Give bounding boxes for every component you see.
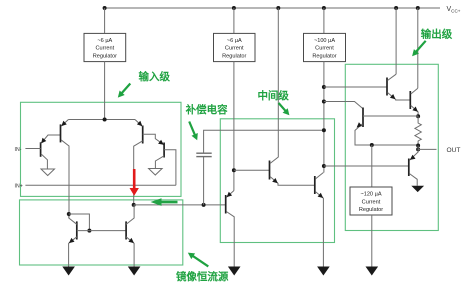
annotation input stage arrow xyxy=(118,84,131,98)
transistor Q7 emitter arrow (NPN) xyxy=(69,238,75,243)
annotation output stage text xyxy=(421,28,453,41)
transistor Q8 base bar xyxy=(125,221,127,239)
wire node A to middle stage xyxy=(134,204,226,206)
label OUT xyxy=(447,147,461,154)
current regulator 2 (~6 uA) xyxy=(214,33,256,61)
transistor Q5 emitter arrow (PNP) xyxy=(227,192,233,197)
transistor Q9 emitter arrow (NPN) xyxy=(272,178,278,183)
resistor Rsc xyxy=(415,116,421,145)
node mirror input A xyxy=(132,203,136,207)
node rail-4 xyxy=(322,6,326,10)
annotation mirror source text xyxy=(176,270,229,283)
svg-text:~6 µA: ~6 µA xyxy=(97,38,112,44)
transistor Q3 emitter diag xyxy=(135,120,142,127)
ground arrow under Q13 xyxy=(411,186,424,192)
svg-text:IN-: IN- xyxy=(15,147,22,153)
node Q7 collector xyxy=(67,212,71,216)
transistor Q2 emitter arrow (PNP) xyxy=(61,121,67,126)
transistor Q11 emitter xyxy=(388,93,411,101)
transistor Q5 collector xyxy=(226,212,234,267)
node tap QL collector xyxy=(322,100,326,104)
transistor Q5 base bar xyxy=(225,195,227,214)
wire IN+ rail xyxy=(25,184,176,186)
node rail-5 xyxy=(394,6,398,10)
transistor Q11 base bar xyxy=(386,78,388,96)
wire reg1 to rail xyxy=(104,8,106,33)
capacitor Cc bottom plate xyxy=(196,156,211,158)
transistor Q1 base bar xyxy=(40,142,42,157)
svg-text:Current: Current xyxy=(225,46,244,52)
node rail-6 xyxy=(416,6,420,10)
transistor Q4 base to IN+ xyxy=(164,150,176,186)
transistor QL emitter xyxy=(355,124,418,145)
transistor Q9 base bar xyxy=(269,161,271,180)
svg-text:补偿电容: 补偿电容 xyxy=(185,103,228,116)
ground arrow under Q7 xyxy=(62,267,75,276)
annotation compensation cap arrow xyxy=(189,122,198,141)
svg-text:中间级: 中间级 xyxy=(257,89,289,102)
node rail-3 xyxy=(276,6,280,10)
input stage box (green) xyxy=(21,102,182,196)
ground arrow under Q10 xyxy=(317,267,330,276)
transistor Q8 emitter xyxy=(126,237,134,267)
transistor QL emitter arrow (NPN) xyxy=(357,122,363,127)
wire 100uA node to QL collector xyxy=(324,102,363,109)
output stage box (green) xyxy=(345,64,438,230)
wire reg2 down to Q5 emitter xyxy=(233,62,235,191)
wire reg3 to rail xyxy=(323,8,325,33)
middle stage box (green) xyxy=(220,119,334,243)
wire IN- to Q1 base xyxy=(25,148,40,150)
node Q9 base feed xyxy=(232,168,236,172)
capacitor Cc top lead xyxy=(204,130,324,153)
wire OUT xyxy=(418,148,436,150)
transistor Q1 collector xyxy=(41,154,48,169)
transistor Q4 collector xyxy=(155,156,164,169)
node OUT xyxy=(416,147,420,151)
transistor Q3 base bar xyxy=(142,126,144,144)
svg-text:输入级: 输入级 xyxy=(139,70,171,83)
svg-text:镜像恒流源: 镜像恒流源 xyxy=(176,270,229,283)
annotation middle stage text xyxy=(257,89,289,102)
wire Q12 collector riser xyxy=(417,8,419,88)
wire reg4 to ground xyxy=(371,215,373,267)
transistor Q1 emitter to Q2 base xyxy=(41,135,61,144)
transistor Q13 collector xyxy=(409,174,417,186)
transistor Q4 emitter arrow (PNP) xyxy=(158,140,164,145)
transistor Q7 base bar xyxy=(76,221,78,239)
wire 120uA tap down xyxy=(371,145,373,187)
transistor Q7 emitter xyxy=(69,237,77,267)
transistor Q12 base bar xyxy=(409,91,411,109)
svg-text:OUT: OUT xyxy=(447,147,461,154)
transistor Q8 emitter arrow (NPN) xyxy=(128,238,134,243)
wire VCC+ top rail xyxy=(105,7,440,9)
transistor Q8 collector diag xyxy=(126,205,134,224)
transistor Q11 emitter arrow (NPN) xyxy=(390,94,396,99)
transistor Q12 collector diag xyxy=(411,88,418,94)
ground arrow under Q8 xyxy=(128,267,141,276)
node Cc top at 100uA rail xyxy=(322,128,326,132)
node tap Q10 collector xyxy=(322,164,326,168)
annotation output stage arrow xyxy=(412,41,426,56)
wire to Q9 base xyxy=(234,169,270,171)
annotation input stage text xyxy=(139,70,171,83)
transistor Q3 base link to Q4 emitter xyxy=(143,134,164,145)
node input top xyxy=(103,118,107,122)
red current arrow into node A xyxy=(130,169,139,196)
transistor Q5 emitter diag xyxy=(226,191,234,198)
transistor Q13 base bar xyxy=(408,159,410,177)
wire reg2 to rail xyxy=(233,8,235,33)
wire Rsc bottom to OUT node xyxy=(417,146,419,150)
current regulator 4 (~120 uA) xyxy=(350,187,392,215)
transistor Q10 base bar xyxy=(314,176,316,194)
transistor Q13 emitter xyxy=(409,149,418,160)
transistor Q10 emitter arrow (NPN) xyxy=(318,193,324,198)
transistor Q9 emitter xyxy=(270,177,315,186)
transistor Q7 collector diag xyxy=(69,214,77,224)
label IN- xyxy=(15,147,22,153)
svg-text:Regulator: Regulator xyxy=(359,207,383,213)
node 120uA tap xyxy=(370,143,374,147)
transistor Q12 emitter xyxy=(411,106,418,117)
ground arrow under reg4 xyxy=(366,267,379,276)
svg-text:Regulator: Regulator xyxy=(93,53,117,59)
wire diode link Q7 xyxy=(69,214,90,231)
transistor Q4 base bar xyxy=(163,143,165,158)
wire reg3 down 100uA node xyxy=(323,62,325,173)
svg-text:Current: Current xyxy=(96,46,115,52)
current regulator 3 (~100 uA) xyxy=(304,33,346,61)
node mirror base xyxy=(87,229,91,233)
wire 100uA node to Q13 base xyxy=(324,165,409,167)
transistor Q12 emitter arrow (NPN) xyxy=(412,107,418,112)
svg-text:Current: Current xyxy=(315,46,334,52)
transistor Q3 emitter arrow (PNP) xyxy=(137,121,143,126)
svg-text:~100 µA: ~100 µA xyxy=(314,38,335,44)
annotation mirror source arrow xyxy=(188,253,209,267)
svg-text:IN+: IN+ xyxy=(15,184,23,190)
capacitor Cc bottom lead xyxy=(203,157,205,205)
wire input-stage top node xyxy=(68,119,135,121)
node cap bottom xyxy=(202,203,206,207)
transistor Q10 emitter xyxy=(315,192,323,267)
svg-text:VCC+: VCC+ xyxy=(447,6,461,14)
transistor Q3 collector xyxy=(134,141,143,205)
node tap Q11 base xyxy=(322,85,326,89)
svg-text:输出级: 输出级 xyxy=(421,28,453,41)
wire Q11 collector riser xyxy=(395,8,397,74)
annotation compensation cap text xyxy=(185,103,228,116)
transistor QL base bar xyxy=(362,108,364,128)
svg-text:Regulator: Regulator xyxy=(312,53,336,59)
transistor Q2 emitter diag xyxy=(61,120,68,127)
svg-text:Regulator: Regulator xyxy=(222,53,246,59)
ground open triangle under Q4 xyxy=(149,169,163,176)
node Rsc bottom xyxy=(416,144,420,148)
transistor Q11 collector diag xyxy=(388,74,397,80)
svg-text:Current: Current xyxy=(362,199,381,205)
transistor Q2 base bar xyxy=(60,124,62,142)
node rail-2 xyxy=(232,6,236,10)
current mirror box (green) xyxy=(20,200,183,265)
svg-text:~120 µA: ~120 µA xyxy=(360,192,381,198)
wire QL base to Rsc top xyxy=(363,115,418,117)
wire reg1 to input stage xyxy=(104,62,106,120)
transistor Q10 collector xyxy=(315,173,323,180)
transistor Q1 emitter arrow (PNP) xyxy=(41,138,46,144)
wire mirror base rail xyxy=(77,230,126,232)
node Q12 emitter / Rsc top xyxy=(416,114,420,118)
current regulator 1 (~6 uA) xyxy=(84,33,126,61)
annotation middle stage arrow xyxy=(279,103,290,115)
transistor Q2 collector xyxy=(61,140,69,218)
transistor Q13 emitter arrow (PNP) xyxy=(410,155,416,160)
capacitor Cc top plate xyxy=(196,152,211,154)
svg-text:~6 µA: ~6 µA xyxy=(227,38,242,44)
node rail-1 xyxy=(103,6,107,10)
transistor Q9 collector xyxy=(270,8,278,164)
ground open triangle under Q1 xyxy=(41,169,55,176)
wire 100uA node to Q11 base xyxy=(324,86,387,88)
label IN+ xyxy=(15,184,23,190)
VCC+ label xyxy=(447,6,461,14)
ground arrow under Q5 xyxy=(228,267,241,276)
green current arrow toward node A xyxy=(151,198,178,206)
